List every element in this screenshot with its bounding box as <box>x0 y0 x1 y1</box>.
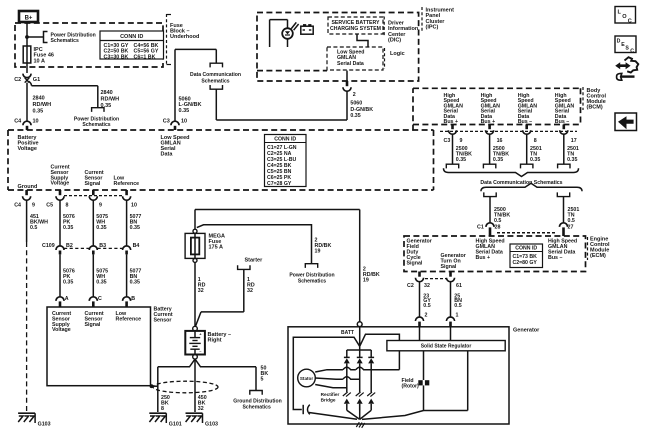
svg-text:BATT: BATT <box>341 330 354 336</box>
svg-text:175 A: 175 A <box>209 245 224 251</box>
svg-text:1: 1 <box>456 312 459 318</box>
svg-text:Underhood: Underhood <box>170 34 199 40</box>
svg-text:0.5: 0.5 <box>423 303 430 309</box>
svg-text:C2: C2 <box>14 77 21 83</box>
svg-text:C4: C4 <box>14 119 22 125</box>
svg-text:28: 28 <box>495 225 501 231</box>
svg-text:0.35: 0.35 <box>456 157 466 163</box>
svg-text:0.35: 0.35 <box>567 157 577 163</box>
svg-text:(Rotor): (Rotor) <box>402 384 420 390</box>
svg-text:C3=30 BK: C3=30 BK <box>104 54 129 60</box>
svg-text:D: D <box>617 39 621 45</box>
svg-text:0.35: 0.35 <box>63 225 73 231</box>
svg-text:G1: G1 <box>33 77 40 83</box>
svg-text:0.35: 0.35 <box>130 225 140 231</box>
svg-text:C7=28 GY: C7=28 GY <box>267 181 292 187</box>
svg-text:8: 8 <box>66 202 69 208</box>
svg-text:32: 32 <box>247 288 253 294</box>
svg-text:Right: Right <box>208 338 222 344</box>
svg-text:10 A: 10 A <box>34 58 45 64</box>
svg-text:2: 2 <box>425 312 428 318</box>
svg-text:CONN ID: CONN ID <box>515 246 537 252</box>
svg-text:CONN ID: CONN ID <box>120 34 143 40</box>
svg-text:2840: 2840 <box>101 90 113 96</box>
svg-text:9: 9 <box>32 202 35 208</box>
svg-text:S: S <box>625 46 629 52</box>
svg-text:B4: B4 <box>133 243 140 249</box>
svg-text:0.35: 0.35 <box>101 103 112 109</box>
svg-text:0.35: 0.35 <box>33 108 44 114</box>
svg-text:G103: G103 <box>205 422 218 428</box>
svg-text:O: O <box>622 14 627 20</box>
svg-text:Reference: Reference <box>114 181 140 187</box>
svg-text:Schematics: Schematics <box>298 278 326 284</box>
svg-text:Schematics: Schematics <box>82 122 110 128</box>
svg-text:0.5: 0.5 <box>568 218 575 224</box>
svg-text:32: 32 <box>198 406 204 412</box>
svg-text:16: 16 <box>497 138 503 144</box>
svg-text:2840: 2840 <box>33 96 45 102</box>
svg-text:Schematics: Schematics <box>51 38 79 44</box>
svg-text:Signal: Signal <box>85 322 101 328</box>
svg-text:Bus –: Bus – <box>548 255 562 261</box>
svg-text:2: 2 <box>353 92 356 98</box>
svg-text:Starter: Starter <box>245 257 264 263</box>
svg-text:Voltage: Voltage <box>51 181 70 187</box>
svg-text:0.5: 0.5 <box>454 303 461 309</box>
svg-text:Generator: Generator <box>513 327 540 333</box>
svg-text:5: 5 <box>261 376 264 382</box>
svg-text:C4: C4 <box>14 202 21 208</box>
svg-text:32: 32 <box>198 288 204 294</box>
svg-text:Signal: Signal <box>407 260 423 266</box>
svg-text:RD/WH: RD/WH <box>101 96 120 102</box>
svg-text:Data: Data <box>161 152 174 158</box>
svg-text:Bus +: Bus + <box>444 119 459 125</box>
svg-text:B: B <box>131 296 135 302</box>
svg-text:C2: C2 <box>407 283 414 289</box>
svg-text:0.35: 0.35 <box>179 108 190 114</box>
svg-text:19: 19 <box>363 278 369 284</box>
svg-text:8: 8 <box>534 138 537 144</box>
svg-text:0.35: 0.35 <box>96 279 106 285</box>
svg-text:19: 19 <box>315 249 321 255</box>
svg-text:Ground: Ground <box>18 184 38 190</box>
svg-text:32: 32 <box>424 283 430 289</box>
svg-text:C: C <box>630 48 634 54</box>
svg-text:0.35: 0.35 <box>493 157 503 163</box>
svg-text:Voltage: Voltage <box>52 327 71 333</box>
svg-text:CONN ID: CONN ID <box>274 137 296 143</box>
svg-text:C5: C5 <box>46 202 53 208</box>
svg-text:61: 61 <box>456 283 462 289</box>
svg-text:A: A <box>65 296 69 302</box>
svg-text:C3: C3 <box>444 138 451 144</box>
svg-text:Stator: Stator <box>300 376 313 381</box>
svg-text:C2=80 GY: C2=80 GY <box>513 260 538 266</box>
svg-text:RD/WH: RD/WH <box>33 102 52 108</box>
svg-text:Bus +: Bus + <box>481 119 496 125</box>
svg-text:0.35: 0.35 <box>530 157 540 163</box>
svg-text:0.5: 0.5 <box>30 225 37 231</box>
svg-text:0.35: 0.35 <box>130 279 140 285</box>
svg-text:D-GN/BK: D-GN/BK <box>350 107 373 113</box>
svg-text:(DIC): (DIC) <box>388 38 401 44</box>
svg-text:G101: G101 <box>169 422 182 428</box>
svg-text:C6=1 BK: C6=1 BK <box>134 54 156 60</box>
svg-text:0.35: 0.35 <box>96 225 106 231</box>
svg-text:C: C <box>98 296 102 302</box>
svg-text:(BCM): (BCM) <box>587 104 603 110</box>
svg-text:C3: C3 <box>163 119 170 125</box>
svg-text:Rectifier: Rectifier <box>321 392 340 397</box>
svg-text:Bus –: Bus – <box>555 119 569 125</box>
svg-text:Logic: Logic <box>390 51 405 57</box>
svg-text:Data Communication Schematics: Data Communication Schematics <box>480 180 562 186</box>
svg-text:Bus +: Bus + <box>476 255 491 261</box>
svg-text:Signal: Signal <box>85 181 101 187</box>
svg-text:L: L <box>618 10 622 16</box>
svg-text:SERVICE BATTERY: SERVICE BATTERY <box>331 20 380 26</box>
svg-text:Sensor: Sensor <box>154 317 172 323</box>
svg-text:10: 10 <box>181 119 187 125</box>
svg-text:Voltage: Voltage <box>18 146 37 152</box>
svg-text:Reference: Reference <box>116 316 142 322</box>
svg-text:C: C <box>628 18 632 24</box>
svg-text:10: 10 <box>131 202 137 208</box>
svg-text:Solid State Regulator: Solid State Regulator <box>421 344 472 350</box>
svg-text:C1: C1 <box>477 225 484 231</box>
svg-text:(IPC): (IPC) <box>426 25 439 31</box>
svg-text:9: 9 <box>99 202 102 208</box>
svg-text:Bus –: Bus – <box>518 119 532 125</box>
svg-text:Serial Data: Serial Data <box>337 61 364 67</box>
svg-text:G103: G103 <box>38 422 51 428</box>
svg-text:Data Communication: Data Communication <box>190 72 241 78</box>
svg-text:Signal: Signal <box>441 264 457 270</box>
svg-text:27: 27 <box>568 225 574 231</box>
svg-text:CHARGING SYSTEM: CHARGING SYSTEM <box>330 26 381 32</box>
svg-text:Schematics: Schematics <box>201 78 229 84</box>
svg-text:(ECM): (ECM) <box>590 253 606 259</box>
svg-text:Schematics: Schematics <box>243 405 271 411</box>
svg-text:10: 10 <box>33 119 39 125</box>
svg-text:8: 8 <box>161 406 164 412</box>
svg-text:B+: B+ <box>25 15 33 21</box>
svg-text:0.5: 0.5 <box>494 218 501 224</box>
svg-text:0.35: 0.35 <box>63 279 73 285</box>
svg-text:0.35: 0.35 <box>350 113 360 119</box>
svg-text:Bridge: Bridge <box>321 398 336 403</box>
svg-text:17: 17 <box>571 138 577 144</box>
svg-text:5060: 5060 <box>350 100 362 106</box>
svg-text:9: 9 <box>460 138 463 144</box>
svg-text:C109: C109 <box>42 243 55 249</box>
